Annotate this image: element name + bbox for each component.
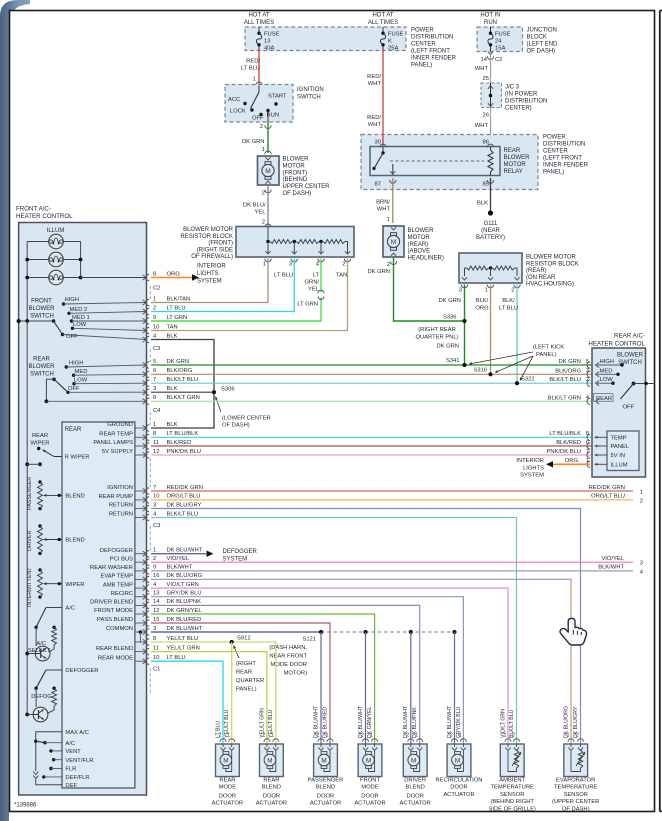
svg-text:ORG/LT BLU: ORG/LT BLU (167, 494, 201, 500)
svg-text:REAR: REAR (219, 778, 235, 784)
svg-text:2: 2 (262, 191, 265, 197)
svg-text:ORG: ORG (167, 271, 181, 277)
rear blower switch (28, 357, 146, 404)
svg-text:ACTUATOR: ACTUATOR (443, 792, 474, 798)
svg-text:WHT: WHT (377, 207, 391, 213)
svg-text:2: 2 (387, 262, 390, 268)
svg-text:11: 11 (153, 645, 159, 651)
splice J/C 3 (IN POWER DISTRIBUTION CENTER) (481, 83, 547, 112)
svg-text:MED 2: MED 2 (70, 307, 88, 313)
potentiometer DRIVER blend (27, 524, 85, 555)
svg-text:INNER FENDER: INNER FENDER (543, 163, 589, 169)
svg-text:DRIVER BLEND: DRIVER BLEND (90, 600, 133, 606)
rear switch REAR contact (548, 394, 613, 405)
svg-text:3: 3 (289, 262, 292, 268)
svg-text:DISTRIBUTION: DISTRIBUTION (411, 35, 453, 41)
svg-text:(LOWER CENTER: (LOWER CENTER (222, 416, 271, 422)
svg-text:1: 1 (263, 262, 266, 268)
blower motor resistor block (rear) (459, 253, 579, 294)
svg-text:HEADLINER): HEADLINER) (408, 256, 444, 262)
svg-text:DK GRN/YEL: DK GRN/YEL (167, 608, 203, 614)
svg-text:FLR: FLR (65, 767, 76, 773)
pin 10 ORG/LT BLU (REAR PUMP) (99, 494, 633, 503)
svg-text:DK GRN: DK GRN (167, 359, 190, 365)
svg-text:ILLUM: ILLUM (611, 463, 628, 469)
svg-text:1: 1 (387, 217, 390, 223)
svg-text:REAR: REAR (65, 427, 82, 433)
svg-text:START: START (268, 94, 287, 100)
svg-text:RED/: RED/ (367, 115, 381, 121)
svg-text:10: 10 (153, 324, 159, 330)
wire BLK/TAN pin1 to front resistor pin1 (143, 259, 268, 306)
wire DK GRN rear blower motor to splice S336 (367, 257, 463, 321)
svg-text:MOTOR): MOTOR) (284, 671, 307, 677)
svg-text:RELAY: RELAY (504, 169, 523, 175)
wire BLK/LT BLU rear resistor pin2 down to S322 (499, 285, 518, 384)
svg-text:LOW: LOW (73, 322, 87, 328)
wire BLK relay to ground G111 (477, 178, 490, 212)
svg-text:C3: C3 (153, 523, 160, 529)
svg-text:DISTRIBUTION: DISTRIBUTION (505, 99, 547, 105)
svg-text:MED 1: MED 1 (72, 315, 90, 321)
wire LT BLU pin2 to front resistor pin3 (143, 259, 295, 315)
wire DK GRN ignition switch to front blower motor (242, 122, 271, 154)
svg-text:8: 8 (153, 431, 156, 437)
svg-text:TAN: TAN (336, 273, 347, 279)
pin 11 BLK/RED (PANEL LAMPS) (93, 440, 592, 449)
svg-text:RESISTOR BLOCK: RESISTOR BLOCK (526, 261, 579, 267)
svg-text:MOTOR: MOTOR (504, 162, 527, 168)
svg-text:M: M (321, 757, 326, 764)
wire DK BLU/RED run to passenger blend actuator (151, 623, 330, 744)
A/C switch and A/C select transistor (25, 606, 75, 661)
svg-text:FRONT MODE: FRONT MODE (94, 608, 133, 614)
svg-text:3: 3 (459, 288, 462, 294)
svg-text:WIPER: WIPER (30, 441, 49, 447)
splice S306 (LOWER CENTER OF DASH) (212, 387, 271, 429)
svg-text:2: 2 (260, 124, 263, 130)
svg-text:BLOWER: BLOWER (28, 364, 55, 370)
svg-text:16: 16 (153, 573, 159, 579)
fuse 24 15A (488, 27, 511, 52)
svg-text:3: 3 (586, 368, 589, 374)
svg-text:DEF: DEF (65, 783, 77, 789)
svg-text:WHT: WHT (475, 66, 489, 72)
svg-text:QUARTER PNL): QUARTER PNL) (415, 335, 458, 341)
svg-text:C4: C4 (153, 408, 161, 414)
pin 4 BLK/LT BLU (RETURN) (109, 511, 198, 520)
pin 1 BLK (GROUND) (107, 422, 177, 431)
svg-text:UPPER CENTER: UPPER CENTER (283, 184, 331, 190)
svg-text:BATTERY): BATTERY) (476, 235, 505, 241)
svg-text:JUNCTION: JUNCTION (527, 28, 557, 34)
svg-text:12: 12 (153, 608, 159, 614)
svg-text:SWITCH: SWITCH (30, 371, 54, 377)
svg-text:PNK/DK BLU: PNK/DK BLU (167, 449, 201, 455)
wire YEL/LT GRN to rear blend actuator (151, 652, 267, 744)
wire DK BLU/GRY run to evaporator sensor (151, 509, 581, 744)
wire WHT junction block to J/C 3 (475, 52, 491, 84)
svg-text:ALL TIMES: ALL TIMES (368, 20, 398, 26)
potentiometer PASSENGER blend (27, 477, 85, 511)
svg-text:(REAR): (REAR) (408, 242, 429, 248)
svg-text:REAR: REAR (504, 148, 521, 154)
wire ORG from interior lights system to rear control ILLUM (516, 458, 590, 479)
svg-text:DK BLU/PNK: DK BLU/PNK (167, 599, 202, 605)
svg-text:ORG: ORG (565, 458, 579, 464)
svg-text:GRN/: GRN/ (305, 280, 320, 286)
rear switch LOW contact (549, 377, 614, 386)
svg-text:BLOWER: BLOWER (28, 306, 55, 312)
wire DK BLU/PNK run to driver blend actuator (151, 605, 420, 743)
svg-text:HOT IN: HOT IN (480, 13, 500, 19)
svg-text:DEFOGGER: DEFOGGER (65, 668, 98, 674)
svg-text:1: 1 (153, 548, 156, 554)
svg-text:1: 1 (567, 733, 570, 739)
svg-text:26: 26 (483, 113, 489, 119)
svg-text:HEATER CONTROL: HEATER CONTROL (16, 213, 73, 220)
svg-text:J/C 3: J/C 3 (505, 85, 520, 91)
svg-text:MAX A/C: MAX A/C (65, 730, 89, 736)
svg-text:DK GRN: DK GRN (438, 298, 461, 304)
svg-text:TEMPERATURE: TEMPERATURE (491, 785, 535, 791)
front mode door actuator (358, 733, 382, 777)
svg-text:BLK/LT BLU: BLK/LT BLU (167, 511, 199, 517)
svg-text:RECIRCULATION: RECIRCULATION (436, 778, 483, 784)
svg-text:S322: S322 (521, 377, 535, 383)
wire BLK pin3 to splice S306 (143, 386, 214, 395)
svg-text:K: K (388, 39, 392, 45)
svg-text:S121: S121 (302, 637, 316, 643)
svg-text:ACTUATOR: ACTUATOR (310, 801, 341, 807)
svg-text:WHT: WHT (368, 122, 382, 128)
svg-text:40A: 40A (264, 45, 274, 51)
svg-text:OFF: OFF (68, 386, 80, 392)
svg-text:OF FIREWALL): OF FIREWALL) (191, 254, 233, 260)
power distribution center dashed box (top) (245, 27, 406, 51)
svg-text:8: 8 (153, 636, 156, 642)
svg-text:3: 3 (153, 502, 156, 508)
svg-text:2: 2 (317, 733, 320, 739)
svg-text:12: 12 (153, 449, 159, 455)
svg-text:VENT/FLR: VENT/FLR (65, 758, 93, 764)
pin 12 DK GRN/YEL (FRONT MODE) (94, 608, 202, 617)
svg-text:25: 25 (483, 76, 489, 82)
svg-text:LT BLU: LT BLU (241, 66, 260, 72)
svg-text:OF DASH): OF DASH) (562, 806, 590, 812)
splice S912 label (RIGHT REAR QUARTER PANEL) (233, 636, 264, 693)
svg-text:BLK/LT GRN: BLK/LT GRN (548, 395, 581, 401)
svg-text:*139886: *139886 (14, 803, 37, 809)
svg-text:DEFOGGER: DEFOGGER (100, 548, 133, 554)
svg-text:REAR MODE: REAR MODE (98, 655, 133, 661)
svg-text:BLOWER: BLOWER (504, 155, 531, 161)
svg-text:WIPER: WIPER (65, 582, 84, 588)
rear switch arm and common (621, 382, 656, 411)
svg-text:BLK/RED: BLK/RED (556, 440, 581, 446)
svg-text:REAR WASHER: REAR WASHER (90, 565, 133, 571)
wire DK GRN rear resistor pin3 down through S336/S341 (436, 285, 464, 366)
svg-text:S316: S316 (473, 368, 487, 374)
svg-text:DEFOG: DEFOG (31, 694, 52, 700)
svg-text:(ABOVE: (ABOVE (408, 249, 431, 255)
pin 15 DK BLU/RED (PASS BLEND) (97, 617, 201, 626)
rear mode door actuator (216, 733, 240, 777)
svg-text:CENTER: CENTER (543, 149, 568, 155)
svg-text:RED/: RED/ (367, 74, 381, 80)
svg-text:M: M (366, 757, 371, 764)
svg-text:BLK/LT GRN: BLK/LT GRN (167, 395, 200, 401)
svg-text:YEL/LT GRN: YEL/LT GRN (167, 645, 200, 651)
svg-text:INNER FENDER: INNER FENDER (411, 56, 457, 62)
svg-text:5V IN: 5V IN (611, 453, 626, 459)
svg-text:DRIVER: DRIVER (404, 778, 426, 784)
front blower switch (17, 297, 147, 340)
svg-text:DOOR: DOOR (317, 793, 334, 799)
pin 2 VIO/YEL (PCI BUS) (110, 556, 633, 565)
svg-text:(BEHIND: (BEHIND (283, 177, 308, 183)
svg-text:S336: S336 (443, 315, 457, 321)
svg-text:MODE: MODE (361, 785, 379, 791)
svg-text:MOTOR: MOTOR (408, 235, 431, 241)
rear wiper switch (30, 433, 89, 461)
svg-text:REAR PUMP: REAR PUMP (99, 494, 134, 500)
front A/C-heater control box (19, 223, 147, 796)
svg-text:2: 2 (153, 305, 156, 311)
pin 11 YEL/LT GRN (REAR BLEND) (96, 645, 200, 654)
svg-text:PANEL): PANEL) (536, 352, 557, 358)
svg-text:PANEL): PANEL) (236, 687, 257, 693)
pin 12 PNK/DK BLU (5V SUPPLY) (102, 449, 592, 458)
svg-text:QUARTER: QUARTER (236, 678, 264, 684)
svg-text:POWER: POWER (543, 135, 566, 141)
svg-text:DK GRN: DK GRN (436, 344, 459, 350)
svg-text:INTERIOR: INTERIOR (197, 264, 226, 270)
svg-text:PANEL: PANEL (611, 444, 630, 450)
power distribution center dashed box (relay) (361, 135, 538, 190)
pin 3 DK BLU/WHT (COMMON) (106, 626, 203, 635)
svg-text:1: 1 (504, 733, 507, 739)
svg-text:ACTUATOR: ACTUATOR (256, 801, 287, 807)
svg-text:(ON REAR: (ON REAR (526, 275, 556, 281)
svg-text:M: M (391, 239, 397, 246)
recirculation door actuator (447, 733, 471, 777)
svg-text:MOTOR: MOTOR (283, 163, 306, 169)
svg-text:(LEFT KICK: (LEFT KICK (533, 345, 564, 351)
svg-text:13: 13 (153, 591, 159, 597)
svg-text:ORG: ORG (475, 306, 489, 312)
svg-text:LIGHTS: LIGHTS (197, 271, 219, 277)
svg-text:OF DASH): OF DASH) (222, 423, 250, 429)
splice S322 (515, 381, 519, 385)
svg-text:1: 1 (227, 733, 230, 739)
rear blend door actuator (260, 733, 284, 777)
svg-text:SIDE OF GRILLE): SIDE OF GRILLE) (489, 806, 536, 812)
svg-text:LT BLU: LT BLU (167, 305, 186, 311)
wire DK GRN pin5 to rear control HIGH (143, 359, 592, 368)
svg-text:DK BLU/WHT: DK BLU/WHT (167, 548, 203, 554)
svg-text:DOOR: DOOR (263, 793, 280, 799)
svg-text:10: 10 (153, 494, 159, 500)
svg-text:WHT: WHT (368, 81, 382, 87)
ground G111 (NEAR BATTERY) (476, 210, 505, 241)
svg-text:NEAR FRONT: NEAR FRONT (269, 654, 307, 660)
svg-text:REAR BLEND: REAR BLEND (96, 646, 133, 652)
evaporator temperature sensor (564, 733, 588, 777)
svg-text:SELECT: SELECT (28, 648, 51, 654)
pin 8 ORG to interior lights system (143, 264, 227, 285)
illumination lamps ILLUM (25, 228, 146, 321)
svg-text:2: 2 (153, 556, 156, 562)
svg-text:(RIGHT: (RIGHT (236, 661, 256, 667)
svg-text:VIO/LT GRN: VIO/LT GRN (167, 582, 199, 588)
fuse K 25A (380, 27, 403, 51)
svg-text:8: 8 (153, 271, 156, 277)
svg-text:BLK/: BLK/ (502, 298, 515, 304)
svg-text:EVAPORATOR: EVAPORATOR (556, 778, 595, 784)
svg-text:11: 11 (153, 440, 159, 446)
svg-text:DK BLU/WHT: DK BLU/WHT (167, 626, 203, 632)
svg-text:HIGH: HIGH (600, 359, 615, 365)
ignition switch contacts (228, 86, 287, 123)
svg-text:HVAC HOUSING): HVAC HOUSING) (526, 282, 574, 288)
svg-text:FRONT: FRONT (31, 299, 52, 305)
svg-text:DK BLU/RED: DK BLU/RED (167, 617, 202, 623)
pin 10 LT BLU (REAR MODE) (98, 655, 186, 664)
svg-text:BLOWER MOTOR: BLOWER MOTOR (183, 227, 234, 233)
wire BLK/LT BLU run to ambient sensor (151, 518, 517, 744)
svg-text:G111: G111 (484, 221, 498, 227)
pin 4 VIO/LT GRN (AMB TEMP) (103, 582, 199, 591)
svg-text:LOW: LOW (74, 377, 88, 383)
svg-text:SYSTEM: SYSTEM (520, 473, 544, 479)
svg-text:DK BLU/GRY: DK BLU/GRY (167, 502, 202, 508)
svg-text:GRY/DK BLU: GRY/DK BLU (167, 591, 202, 597)
svg-text:PASSENGER: PASSENGER (27, 477, 33, 510)
svg-text:2: 2 (511, 288, 514, 294)
blower motor (front) (258, 156, 331, 197)
svg-text:HOT AT: HOT AT (248, 13, 269, 19)
pin 8 LT BLU/BLK (REAR TEMP) (99, 431, 592, 440)
right edge pins RED/DK GRN / ORG/LT BLU (589, 485, 643, 505)
svg-text:PANEL): PANEL) (543, 170, 564, 176)
svg-text:YEL/LT BLU: YEL/LT BLU (167, 636, 199, 642)
svg-text:REAR: REAR (33, 357, 50, 363)
pin 9 BLK/WHT (REAR WASHER) (90, 565, 633, 574)
svg-text:BLK/: BLK/ (476, 298, 489, 304)
svg-text:DEFOGGER: DEFOGGER (223, 549, 258, 555)
splice S316 (488, 372, 492, 376)
svg-text:1: 1 (415, 733, 418, 739)
splice S341 (462, 363, 466, 367)
wire DK BLU/YEL motor to resistor block (243, 185, 271, 227)
svg-text:M: M (265, 168, 271, 175)
svg-text:RESISTOR BLOCK: RESISTOR BLOCK (180, 234, 233, 240)
fuse 13 40A (256, 27, 279, 51)
svg-text:(LEFT FRONT: (LEFT FRONT (411, 49, 450, 55)
wire YEL/LT BLU with splice S912 (151, 640, 276, 744)
svg-text:LT BLU/BLK: LT BLU/BLK (549, 431, 581, 437)
svg-text:M: M (267, 757, 272, 764)
blower motor resistor block (front) (180, 227, 354, 268)
svg-text:C3: C3 (153, 346, 160, 352)
svg-text:15A: 15A (495, 45, 505, 51)
svg-text:C1: C1 (153, 667, 160, 673)
svg-text:PCI BUS: PCI BUS (110, 556, 133, 562)
svg-text:BLEND: BLEND (262, 785, 281, 791)
svg-text:POWER: POWER (411, 28, 434, 34)
svg-text:BLK/LT BLU: BLK/LT BLU (549, 377, 581, 383)
inner control module box (62, 422, 135, 788)
left common rail (26, 321, 28, 714)
svg-text:30: 30 (375, 140, 381, 146)
svg-text:DRIVER: DRIVER (27, 531, 33, 551)
svg-text:BLK: BLK (477, 201, 488, 207)
svg-text:BLEND: BLEND (316, 785, 335, 791)
svg-text:(IN POWER: (IN POWER (505, 92, 538, 98)
svg-text:YEL: YEL (255, 210, 267, 216)
svg-text:1: 1 (640, 490, 643, 496)
svg-text:(FRONT): (FRONT) (208, 241, 233, 247)
splice S121 label (DASH HARN, NEAR FRONT MODE DOOR MOTOR) (269, 637, 316, 677)
svg-text:C2: C2 (153, 286, 160, 292)
wire GRY/DK BLU run to recirculation actuator (151, 597, 463, 744)
svg-text:HIGH: HIGH (69, 360, 84, 366)
wire BLK/LT BLU pin7 to rear control LOW (143, 377, 592, 386)
svg-text:5: 5 (153, 359, 156, 365)
svg-text:2: 2 (512, 733, 515, 739)
pin 16 DK BLU/ORG (EVAP TEMP) (100, 573, 202, 582)
svg-text:9: 9 (153, 565, 156, 571)
passenger blend door actuator (314, 733, 338, 777)
svg-text:FRONT: FRONT (360, 778, 380, 784)
svg-text:RETURN: RETURN (109, 512, 133, 518)
svg-text:DK GRN: DK GRN (558, 359, 581, 365)
svg-text:AMB TEMP: AMB TEMP (103, 582, 133, 588)
svg-text:C2: C2 (495, 57, 502, 63)
svg-text:5V SUPPLY: 5V SUPPLY (102, 449, 133, 455)
svg-text:INTERIOR: INTERIOR (516, 458, 544, 464)
rear control pin 7 (5V IN) (586, 449, 625, 459)
svg-text:DOOR: DOOR (406, 793, 423, 799)
svg-text:25A: 25A (388, 45, 398, 51)
svg-text:TEMP: TEMP (611, 436, 627, 442)
svg-text:BLK/WHT: BLK/WHT (167, 565, 193, 571)
wire BLK/LT GRN pin8 to rear control REAR (143, 395, 592, 404)
svg-text:M: M (223, 757, 228, 764)
svg-text:REAR: REAR (236, 670, 252, 676)
svg-text:PANEL LAMPS: PANEL LAMPS (93, 440, 133, 446)
svg-text:EVAP TEMP: EVAP TEMP (100, 574, 133, 580)
rear A/C-heater control box (592, 348, 646, 477)
svg-text:IGNITION: IGNITION (107, 485, 133, 491)
wire DK BLU/WHT to defogger system (151, 549, 258, 563)
pin 14 DK BLU/PNK (DRIVER BLEND) (90, 599, 201, 608)
svg-text:FRONT A/C-: FRONT A/C- (16, 206, 51, 213)
svg-text:RED/DK GRN: RED/DK GRN (167, 485, 203, 491)
svg-text:2: 2 (262, 733, 265, 739)
svg-text:2: 2 (576, 733, 579, 739)
svg-text:BLOWER: BLOWER (617, 353, 644, 359)
svg-text:SWITCH: SWITCH (30, 313, 54, 319)
svg-text:1: 1 (370, 733, 373, 739)
svg-text:24: 24 (495, 39, 502, 45)
svg-text:S912: S912 (237, 636, 251, 642)
svg-text:15: 15 (153, 617, 159, 623)
svg-text:ALL TIMES: ALL TIMES (244, 20, 274, 26)
svg-text:LOCK: LOCK (230, 109, 246, 115)
svg-text:HIGH: HIGH (65, 297, 80, 303)
